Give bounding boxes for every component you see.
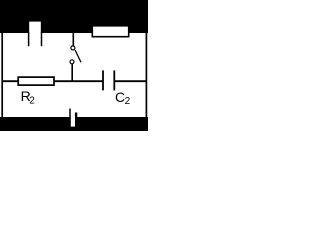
switch S1 lever (open): [75, 50, 81, 62]
capacitor C2 plate 1: [102, 70, 104, 90]
battery B1 short thick plate: [75, 113, 77, 118]
top wire (black band): [0, 0, 148, 33]
middle wire right segment: [115, 80, 147, 82]
svg-text:2: 2: [125, 96, 131, 107]
switch S1 top contact circle: [71, 46, 75, 50]
resistor (horizontal, top-right): [92, 26, 128, 37]
left border wire: [1, 33, 3, 118]
resistor R1 left side edge: [28, 32, 30, 46]
bottom wire (black band): [0, 117, 148, 131]
right border wire: [145, 33, 147, 118]
switch S1 top stub wire: [72, 32, 74, 46]
battery B1 gap slot: [71, 117, 75, 127]
switch S1 bottom contact circle: [70, 60, 74, 64]
svg-text:2: 2: [29, 95, 35, 106]
battery B1 long plate: [69, 109, 71, 118]
resistor R1 (vertical, top-left) white interior slot: [29, 22, 41, 33]
switch S1 bottom stub wire: [71, 64, 73, 81]
svg-text:C: C: [115, 89, 125, 105]
middle wire left segment: [2, 80, 103, 82]
resistor R2 box: [18, 77, 54, 85]
capacitor C2 plate 2: [113, 70, 115, 90]
resistor R1 right side edge: [41, 32, 43, 46]
